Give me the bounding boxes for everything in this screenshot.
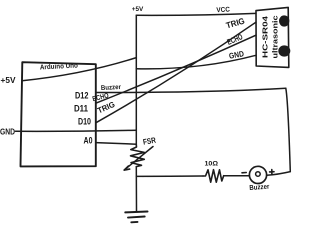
wire resistor to buzzer bbox=[224, 175, 250, 177]
svg-text:Buzzer: Buzzer bbox=[101, 84, 122, 92]
wire +5V vertical rail bbox=[135, 15, 137, 145]
transducer top bbox=[279, 15, 289, 26]
wire sensor GND to rail bbox=[136, 55, 256, 69]
arduino U1 box bbox=[21, 62, 96, 166]
FSR arrow bbox=[125, 147, 154, 170]
svg-text:GND: GND bbox=[0, 128, 15, 137]
svg-text:+5V: +5V bbox=[1, 75, 16, 85]
svg-text:+5V: +5V bbox=[132, 6, 144, 13]
wire A0 to FSR node bbox=[96, 143, 137, 145]
wire TRIG D10 to sensor bbox=[96, 22, 256, 123]
sensor U2 HC-SR04 box bbox=[256, 7, 289, 67]
buzzer BZ1 circle bbox=[249, 166, 266, 183]
wire VCC horizontal bbox=[136, 13, 256, 15]
transducer bottom bbox=[278, 45, 290, 56]
svg-text:Buzzer: Buzzer bbox=[249, 184, 270, 192]
resistor R1 10ohm zigzag bbox=[203, 170, 224, 183]
wire FSR to ground bbox=[135, 167, 137, 212]
wire to buzzer plus bbox=[267, 172, 291, 176]
wire ECHO D11 to sensor bbox=[96, 35, 256, 103]
wire right edge down bbox=[286, 88, 291, 171]
svg-text:D12: D12 bbox=[75, 91, 89, 102]
buzzer plus sign bbox=[270, 170, 274, 174]
svg-text:HC-SR04: HC-SR04 bbox=[263, 16, 270, 58]
svg-text:D11: D11 bbox=[74, 104, 89, 115]
wire node to resistor bbox=[137, 175, 204, 177]
ground symbol bbox=[125, 211, 147, 214]
buzzer minus sign bbox=[242, 172, 246, 174]
FSR R2 zigzag bbox=[131, 145, 145, 167]
wire GND label to rail bbox=[15, 130, 136, 131]
wire buzzer D12 across top bbox=[96, 88, 286, 92]
svg-text:A0: A0 bbox=[84, 136, 93, 147]
svg-text:VCC: VCC bbox=[216, 7, 230, 15]
buzzer inner dot bbox=[256, 172, 261, 177]
svg-text:D10: D10 bbox=[78, 116, 91, 127]
wire +5V label to rail bbox=[22, 58, 136, 81]
svg-text:10Ω: 10Ω bbox=[205, 160, 219, 167]
